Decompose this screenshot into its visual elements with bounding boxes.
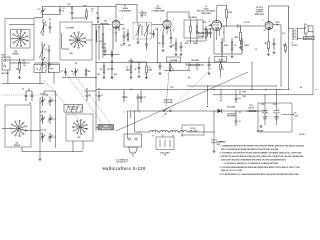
svg-text:C17A: C17A	[261, 103, 266, 106]
svg-text:C4: C4	[29, 102, 31, 105]
svg-text:C13 .02: C13 .02	[244, 22, 250, 24]
switch label onoff	[163, 100, 172, 104]
svg-text:C10: C10	[155, 29, 158, 31]
capacitor C8 osc padder	[71, 68, 78, 77]
wire T1 to V2	[152, 23, 163, 25]
svg-text:C14: C14	[282, 32, 285, 35]
capacitor C5	[48, 60, 51, 73]
svg-text:NOTES:: NOTES:	[219, 142, 227, 144]
svg-text:.05: .05	[22, 89, 24, 91]
resistor R16 audio	[186, 59, 204, 66]
switch S1A wafer	[11, 30, 31, 56]
resistor R24 avc divider	[100, 63, 106, 79]
wire b+ drop mid	[252, 62, 253, 90]
resistor R23 top strip	[83, 5, 88, 21]
svg-text:S1A: S1A	[14, 50, 18, 53]
ground R13	[239, 46, 242, 49]
svg-text:22K: 22K	[88, 71, 92, 73]
svg-text:470K: 470K	[235, 36, 240, 39]
resistor R8	[196, 19, 198, 36]
coil L1 ant w/ trimmer	[41, 19, 48, 36]
voltage note 150V	[242, 92, 247, 99]
transformer T1 1st IF can	[133, 12, 152, 40]
capacitor C32	[235, 111, 241, 127]
wire V2 grid return	[157, 28, 158, 63]
svg-text:OSC: OSC	[97, 74, 101, 76]
wire gang left rail	[40, 98, 43, 140]
svg-text:C1B .05: C1B .05	[40, 112, 46, 114]
capacitor C10 agc	[145, 41, 148, 50]
resistor R13 grid 470K	[235, 26, 242, 46]
svg-text:1.5K 7W: 1.5K 7W	[248, 108, 254, 110]
svg-text:AMPLIFIER: AMPLIFIER	[255, 13, 265, 16]
wire ext ant drop	[7, 70, 9, 84]
svg-text:.05: .05	[239, 121, 241, 123]
capacitor C29	[98, 88, 103, 101]
wire osc to V1	[92, 25, 111, 57]
wire antenna input top	[34, 6, 116, 17]
resistor R10 vol	[221, 38, 228, 56]
node B plus bus	[96, 89, 289, 91]
transformer T2 2nd IF	[184, 16, 203, 38]
svg-text:T3: T3	[292, 43, 294, 45]
svg-text:6: 6	[275, 31, 276, 33]
svg-text:5: 5	[275, 20, 276, 22]
capacitor C1C tuning	[40, 130, 52, 143]
wire hang row	[84, 90, 96, 92]
svg-text:MEG: MEG	[126, 69, 130, 71]
svg-text:+125V: +125V	[275, 22, 279, 24]
svg-text:.05: .05	[140, 97, 142, 99]
wire screen drop v4	[240, 89, 277, 101]
capacitor C26 top strip	[68, 4, 74, 20]
ground C16	[208, 72, 211, 75]
node audio line	[96, 62, 240, 64]
ground tuning gang	[22, 140, 83, 161]
switch S1D wafer	[72, 119, 87, 152]
resistor R17 tone pot	[220, 62, 224, 78]
capacitor C1 ant trimmer	[38, 6, 45, 17]
svg-text:3. RESISTOR VALUES ARE IN OHMS: 3. RESISTOR VALUES ARE IN OHMS (K=1000 O…	[220, 155, 305, 158]
wire B+ arrow	[282, 113, 299, 118]
capacitor C30	[123, 90, 128, 103]
speaker SP1	[304, 24, 315, 40]
transformer T1 core	[141, 26, 142, 36]
svg-text:LINE CORD: LINE CORD	[189, 130, 199, 132]
ground T1	[137, 41, 140, 44]
wire power left vert	[126, 111, 128, 139]
svg-text:150V: 150V	[242, 92, 247, 94]
resistor R12	[241, 38, 250, 54]
svg-text:R20: R20	[250, 105, 253, 107]
svg-text:.05: .05	[126, 97, 128, 99]
wire V1 pins down	[113, 24, 124, 50]
coil shield box S1D	[66, 114, 93, 141]
wire avc top link	[131, 58, 147, 62]
capacitor C17 avc	[107, 63, 114, 79]
value label diode	[185, 42, 198, 45]
svg-text:WITH CHASSIS IN AN INVERTED BE: WITH CHASSIS IN AN INVERTED BENCH POSITI…	[221, 148, 279, 151]
wire T2 bottoms	[186, 35, 205, 44]
svg-text:B+: B+	[295, 113, 297, 115]
wire left drop	[98, 25, 100, 60]
ground C21	[213, 150, 216, 153]
svg-text:40MFD: 40MFD	[274, 116, 280, 119]
wire link dash long	[116, 68, 248, 131]
svg-text:6. DC RESISTANCE TO CHASSIS ME: 6. DC RESISTANCE TO CHASSIS MEASURED WIT…	[220, 173, 300, 176]
capacitor C22A 20MFD	[262, 101, 268, 125]
filter box labels	[261, 103, 278, 106]
capacitor C22B 40MFD	[274, 101, 280, 125]
capacitor C9	[123, 28, 129, 42]
node AVC bus left	[2, 83, 44, 85]
svg-text:T2 455KC: T2 455KC	[189, 16, 198, 19]
svg-text:AND AT 117V A.C. LINE: AND AT 117V A.C. LINE	[221, 169, 243, 172]
svg-text:AMPLIFIER: AMPLIFIER	[201, 12, 211, 15]
node screen rail	[187, 86, 277, 87]
svg-text:MEG: MEG	[149, 69, 153, 71]
ground V1 cathode	[111, 60, 114, 63]
resistor R22 V2 screen	[172, 40, 177, 52]
capacitor C23 pad	[22, 89, 28, 102]
value label osc	[98, 21, 108, 30]
wire V4 pins	[264, 29, 269, 38]
svg-text:B+: B+	[300, 87, 302, 89]
wire V3 pins down	[214, 30, 220, 40]
svg-text:2.2 MEG: 2.2 MEG	[198, 36, 205, 38]
wire osc section	[34, 62, 60, 64]
svg-text:C1C .05: C1C .05	[40, 130, 46, 132]
svg-text:4. VOLTAGES: (MINUS) DC TO NEG: 4. VOLTAGES: (MINUS) DC TO NEGATIVE CHAS…	[224, 162, 279, 165]
tube V1 12BE6 converter	[112, 6, 132, 29]
svg-text:7: 7	[263, 30, 264, 32]
svg-text:S1B: S1B	[70, 53, 74, 55]
svg-text:L2: L2	[45, 49, 47, 51]
wire B+ screen line	[275, 35, 277, 37]
coil box L5	[49, 65, 60, 73]
svg-text:DIAL LAMPS: DIAL LAMPS	[160, 152, 169, 155]
resistor R19 3.3MEG	[145, 63, 153, 79]
resistor R14 cathode 150	[264, 38, 269, 52]
wire jack drop	[130, 111, 132, 118]
svg-text:S1D: S1D	[78, 137, 82, 139]
capacitor C1B tuning	[40, 112, 52, 125]
resistor R5	[127, 29, 129, 42]
rectifier CR1 selenium	[218, 106, 237, 118]
svg-text:C2: C2	[63, 8, 65, 10]
coil L2 w/ trimmer	[40, 42, 47, 60]
svg-text:ON-OFF SW: ON-OFF SW	[164, 100, 173, 102]
wire V3 bottom bus	[214, 38, 242, 62]
svg-text:.05: .05	[107, 69, 109, 71]
svg-text:2: 2	[263, 20, 264, 22]
wire T1 top lead	[138, 10, 147, 26]
svg-text:C1: C1	[38, 9, 40, 11]
heater labels	[152, 135, 183, 138]
wire S2 to volume dashed	[166, 72, 169, 107]
svg-text:4.7K: 4.7K	[185, 42, 189, 45]
coil shield box S1C	[5, 105, 31, 147]
svg-text:R21 47: R21 47	[190, 127, 195, 130]
resistor R7 diode load	[189, 12, 191, 35]
wire link dash 1	[44, 80, 84, 126]
svg-text:.05: .05	[134, 69, 136, 71]
svg-text:10: 10	[91, 11, 93, 13]
svg-text:Hallicrafters S-120: Hallicrafters S-120	[102, 166, 145, 171]
svg-text:I-F AMPLIFIER: I-F AMPLIFIER	[152, 9, 166, 12]
svg-text:OUTPUT: OUTPUT	[292, 45, 298, 47]
wire speaker return	[283, 32, 313, 95]
wire test point drop	[220, 89, 221, 101]
capacitor C16 tone	[208, 57, 211, 70]
node b minus rail	[213, 94, 313, 96]
capacitor C21 100MFD	[211, 111, 224, 150]
svg-text:ON VOLUME: ON VOLUME	[163, 102, 172, 104]
svg-text:1. SUBMINIATURE PARTS AS VIEWE: 1. SUBMINIATURE PARTS AS VIEWED FROM FRO…	[220, 144, 305, 147]
svg-text:105-125V 60 CY: 105-125V 60 CY	[116, 162, 127, 164]
capacitor C3 padder	[49, 19, 52, 33]
svg-text:VOLUME: VOLUME	[170, 60, 178, 62]
svg-text:.02: .02	[255, 49, 257, 51]
wire into filter	[259, 111, 266, 112]
svg-text:100: 100	[158, 43, 161, 45]
transformer T1 primary coil	[136, 25, 141, 37]
svg-text:105V: 105V	[295, 116, 300, 118]
svg-text:1: 1	[160, 19, 161, 21]
svg-text:CR1 65MA: CR1 65MA	[227, 106, 236, 109]
svg-text:C1A .05: C1A .05	[40, 93, 46, 96]
wire det junction	[203, 29, 214, 30]
svg-text:ARE IN MF UNLESS OTHERWISE SPE: ARE IN MF UNLESS OTHERWISE SPECIFIED ON …	[221, 159, 286, 162]
ground ext ant	[18, 76, 21, 79]
wire gang top	[44, 91, 56, 97]
value label v4 screen	[255, 32, 285, 51]
value label V2 grid	[155, 29, 161, 45]
wire pad tops	[26, 88, 32, 91]
resistor R3 2.2K	[99, 25, 104, 56]
wire V2 plate	[167, 12, 189, 20]
resistor R2 22K	[85, 68, 91, 77]
svg-text:105V B+: 105V B+	[299, 134, 305, 136]
pin numbers V1	[109, 18, 123, 34]
AC interlock label	[116, 159, 129, 164]
svg-text:L5: L5	[98, 27, 100, 29]
svg-text:150: 150	[264, 43, 267, 45]
pin numbers V2	[160, 19, 174, 32]
svg-text:1M: 1M	[100, 69, 103, 71]
capacitor C25 V2	[180, 42, 183, 56]
capacitor C18 avc	[134, 63, 141, 78]
wire vol bottom	[170, 70, 171, 72]
capacitor C13 coupling .02	[222, 22, 265, 28]
svg-text:2. SCHEMATIC SHOWN IN POSITION: 2. SCHEMATIC SHOWN IN POSITION ONE (EXTR…	[220, 152, 303, 155]
svg-text:5: 5	[173, 19, 174, 21]
wire drop 207	[207, 86, 208, 108]
wire v1 bottoms	[103, 55, 120, 61]
svg-text:SPEAKER: SPEAKER	[305, 37, 312, 40]
svg-text:OSC: OSC	[50, 69, 54, 71]
ground C9	[123, 43, 126, 46]
capacitor C15	[159, 63, 162, 75]
wire volume feed drop	[223, 26, 225, 42]
capacitor C1A tuning	[40, 93, 52, 107]
capacitor C24 pad	[29, 91, 34, 105]
svg-text:1 MEG: 1 MEG	[244, 45, 250, 47]
ground R14	[267, 53, 270, 56]
wire band sel stem	[2, 73, 98, 131]
wire rectifier line	[127, 110, 259, 112]
capacitor C2	[59, 6, 65, 14]
svg-text:LINKAGE: LINKAGE	[70, 108, 77, 111]
voltage label 105V	[299, 134, 305, 136]
coil heater string	[134, 111, 214, 133]
svg-text:7: 7	[109, 29, 110, 31]
filter box C22	[258, 103, 292, 132]
ground V3 area	[231, 55, 234, 58]
wire V4 plate loop	[269, 6, 289, 32]
svg-text:7: 7	[223, 21, 224, 23]
capacitor C31	[235, 90, 241, 104]
wire T1 bottom leads	[138, 36, 147, 42]
resistor R18 2.2MEG	[126, 63, 132, 79]
resistor R11	[231, 38, 236, 54]
transformer T3 output	[292, 28, 297, 40]
resistor R9 47K	[203, 21, 207, 41]
wire r22 top	[175, 38, 178, 56]
coil shield box L2	[60, 22, 92, 60]
svg-text:7: 7	[160, 30, 161, 32]
svg-text:2.2K: 2.2K	[99, 41, 103, 43]
wire OT primary drop	[288, 6, 292, 90]
terminal strip EXT ANT	[2, 55, 11, 76]
resistor R1 47K	[16, 59, 26, 75]
svg-text:C27: C27	[91, 9, 94, 11]
capacitor C33 if bypass	[149, 30, 155, 38]
coil box L4	[34, 65, 46, 73]
svg-text:SELECTOR: SELECTOR	[102, 128, 111, 130]
svg-text:5: 5	[122, 18, 123, 20]
svg-text:ANT GND: ANT GND	[2, 72, 10, 75]
capacitor C14	[273, 38, 276, 54]
value label b+	[170, 87, 302, 89]
svg-text:3.3: 3.3	[149, 67, 151, 69]
resistor R25 plate load	[217, 5, 233, 26]
capacitor C20 line bypass	[137, 94, 143, 112]
transformer T3 labels	[292, 43, 298, 47]
svg-text:.05: .05	[143, 97, 145, 99]
svg-text:150V: 150V	[263, 119, 267, 121]
svg-text:117V: 117V	[170, 87, 174, 89]
svg-text:(FRONT): (FRONT)	[14, 145, 20, 147]
junction dots	[96, 62, 317, 113]
svg-text:L2 RF AMP: L2 RF AMP	[66, 27, 74, 30]
svg-text:1: 1	[210, 21, 211, 23]
svg-text:10: 10	[234, 45, 236, 47]
plug AC interlock	[124, 134, 142, 157]
wire bus drops	[189, 63, 197, 71]
title Hallicrafters S-120	[102, 166, 145, 171]
value label C9 area	[120, 44, 132, 47]
svg-text:C26: C26	[68, 4, 71, 6]
label L6	[115, 32, 134, 62]
resistor R21 line cord box	[182, 125, 204, 135]
wire V4 screen	[273, 22, 282, 87]
switch S1B wafer	[62, 27, 92, 55]
value label avc	[97, 73, 118, 76]
svg-text:+: +	[278, 108, 279, 110]
wire gang right rail	[50, 91, 56, 148]
pin numbers V3	[210, 21, 225, 34]
wire mid vertical	[95, 44, 97, 131]
notes text block	[219, 142, 305, 176]
svg-text:L1: L1	[45, 25, 47, 27]
svg-text:1ST I-F: 1ST I-F	[140, 15, 147, 17]
svg-text:100: 100	[172, 45, 175, 47]
svg-text:2.2: 2.2	[126, 67, 128, 69]
ballast box	[156, 137, 174, 157]
node osc bottom rail	[62, 77, 96, 79]
svg-text:6: 6	[173, 30, 174, 32]
capacitor C7 osc	[61, 68, 67, 76]
tube V4 50C5 output	[255, 6, 273, 30]
svg-text:S2: S2	[165, 114, 167, 116]
coil shield box L1	[5, 19, 34, 61]
svg-text:L4: L4	[36, 68, 38, 71]
svg-text:47K: 47K	[203, 21, 207, 24]
svg-text:C33: C33	[149, 33, 152, 35]
svg-text:+: +	[211, 138, 212, 140]
wire tuning top line	[2, 94, 58, 96]
svg-text:3: 3	[113, 32, 114, 34]
wire V1 plate loop	[116, 5, 137, 23]
node junction below V1	[112, 54, 113, 55]
svg-text:47K: 47K	[128, 44, 132, 47]
svg-text:6: 6	[122, 29, 123, 31]
tube V3 12AV6	[197, 6, 222, 31]
svg-text:V1: V1	[152, 136, 154, 138]
svg-text:470K: 470K	[83, 5, 88, 8]
svg-text:(FRONT): (FRONT)	[12, 53, 19, 55]
coil L6 osc coupling	[97, 22, 108, 25]
svg-text:470K: 470K	[224, 44, 229, 47]
wire V3 plate top	[220, 23, 222, 26]
svg-text:5. VOLTAGE MEASUREMENTS MADE B: 5. VOLTAGE MEASUREMENTS MADE BETWEEN IND…	[220, 166, 300, 169]
svg-text:RECTIFIER: RECTIFIER	[227, 116, 236, 118]
svg-text:.01: .01	[101, 95, 103, 97]
svg-text:125V: 125V	[242, 96, 247, 98]
capacitor C28	[86, 88, 91, 101]
tone control label	[215, 57, 227, 62]
ganged linkage label	[64, 105, 83, 113]
capacitor C4	[48, 45, 51, 60]
svg-text:100: 100	[120, 45, 123, 47]
svg-text:SELENIUM: SELENIUM	[227, 113, 236, 115]
svg-text:C7: C7	[61, 71, 63, 73]
node audio bottom rail	[164, 70, 190, 72]
capacitor C12 detector	[209, 24, 212, 38]
svg-text:150V: 150V	[275, 119, 279, 121]
svg-text:20MFD: 20MFD	[263, 117, 269, 119]
ground filter	[257, 125, 265, 133]
resistor R4 cath	[103, 50, 113, 58]
svg-text:2: 2	[109, 18, 110, 20]
svg-text:A.C. INTERLOCK: A.C. INTERLOCK	[116, 159, 129, 162]
wire ant bus	[10, 62, 30, 63]
switch S2 on-off	[163, 107, 172, 116]
svg-text:+: +	[267, 108, 268, 110]
svg-text:1W: 1W	[23, 65, 26, 67]
switch S1C wafer	[10, 120, 27, 147]
